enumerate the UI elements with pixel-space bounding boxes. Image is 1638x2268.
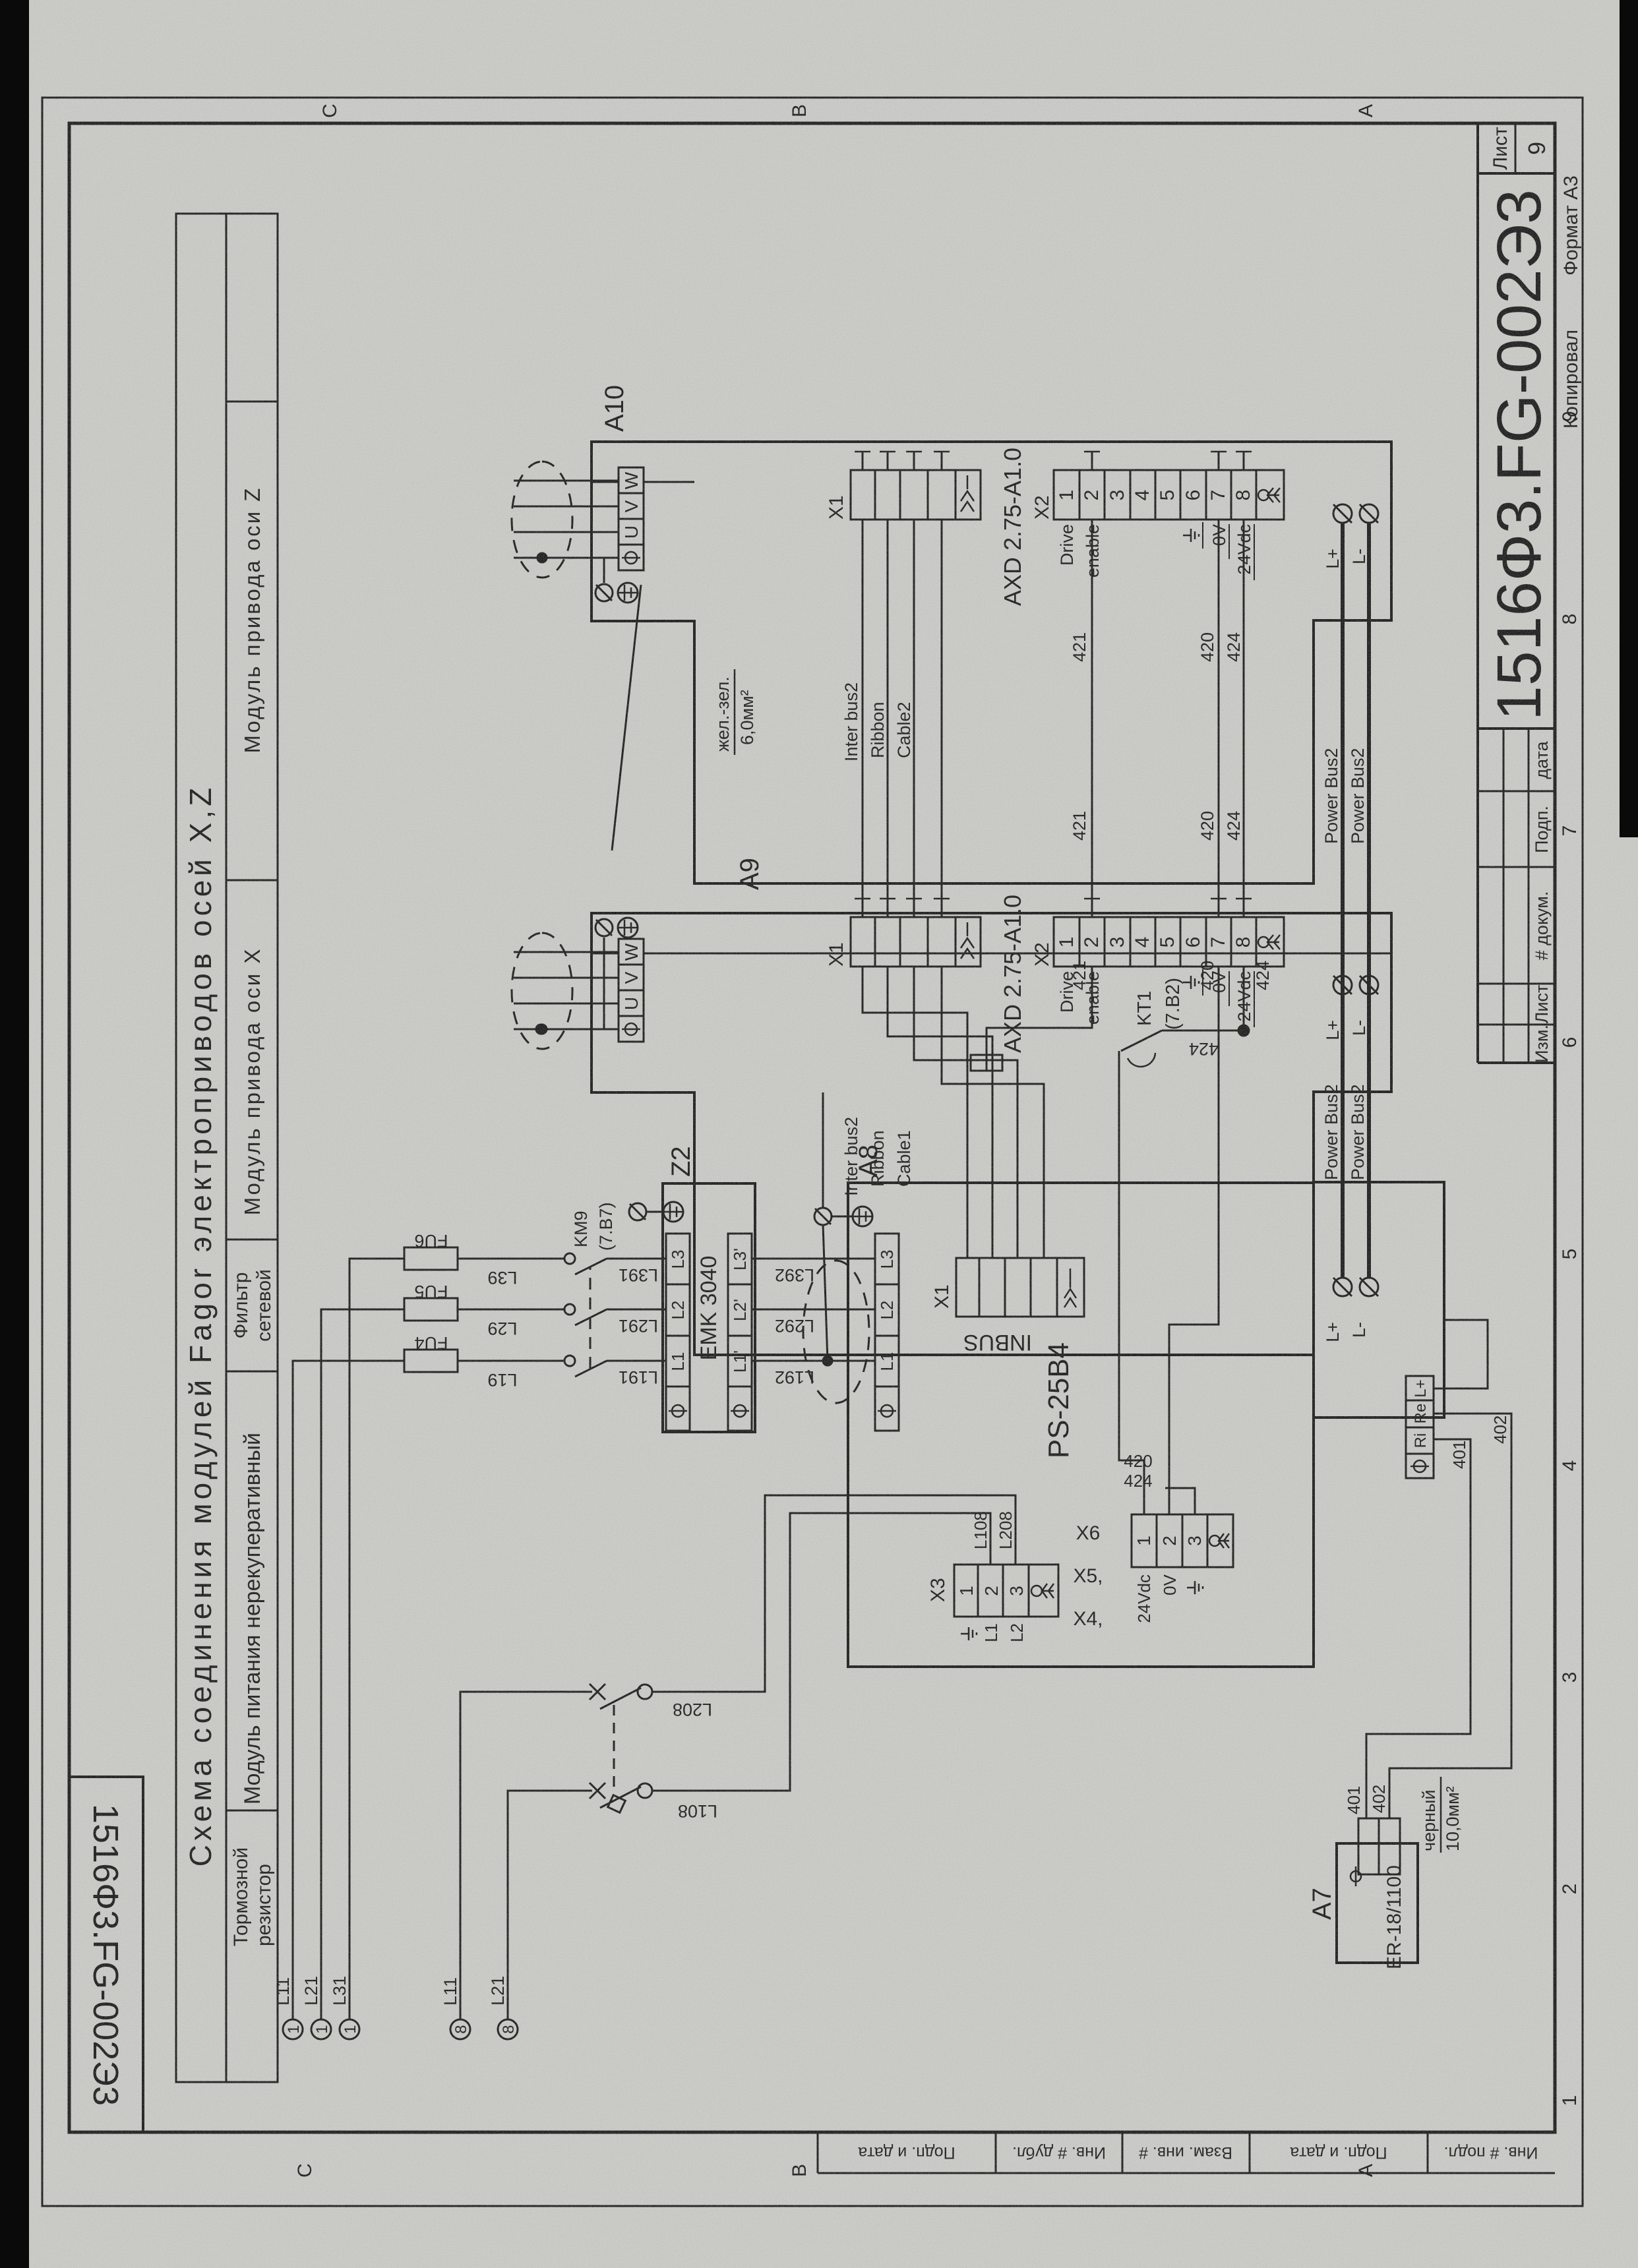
wire 421 A10 to A9 [971, 520, 1249, 1514]
A8 earth circle [853, 1207, 872, 1226]
A10 shield drain wire [541, 558, 604, 583]
wire L31 phase L3 [349, 1259, 404, 2019]
module A7 box [1337, 1843, 1418, 1963]
X3 row labels [961, 1623, 1027, 1642]
header band outline [176, 214, 278, 2082]
Z2 input strip [666, 1234, 690, 1431]
A10 earth circle [618, 583, 638, 603]
wire 424 KT1 to X4 [1119, 1051, 1144, 1514]
A10 X2 shield cell symbol [1258, 490, 1269, 500]
A10 X1 connector [851, 470, 981, 520]
QF08 release box on lever [608, 1795, 626, 1813]
A9 motor cable shield oval [512, 933, 572, 1049]
A9 pin6 earth symbol [1183, 969, 1254, 1027]
A8 X2 small connector [971, 1055, 1002, 1071]
KM9 mechanical dashed link [590, 1267, 591, 1369]
ribbon cable wires A9.X1 to A8.X1 with jogs [863, 967, 1044, 1258]
A10 shield dot [537, 553, 547, 562]
A9 UVW letters [621, 943, 642, 1010]
X4 pin numbers [1134, 1536, 1205, 1546]
A10 internal divider [591, 481, 694, 483]
A9 X2 pin numbers [1056, 937, 1254, 948]
Z2 filter box [629, 1183, 755, 1432]
A8 X1 arrow symbol [1064, 1268, 1076, 1307]
wire L21 phase L2 [321, 1309, 404, 2019]
wire L208 QF08 down [652, 1513, 990, 1791]
title block column lines [1478, 1024, 1555, 1026]
ribbon cable wires A10.X1 to A9.X1 [863, 520, 942, 917]
module A8 box [848, 1182, 1444, 1667]
QF08 pole 1 lever [600, 1688, 641, 1709]
module A9 outline [591, 913, 1391, 1355]
wire L11 phase L1 [293, 1361, 404, 2019]
wire L39 fuse to KM9 [458, 1258, 564, 1260]
band cell divider 2 [226, 1371, 278, 1373]
X4 shield cell symbol [1209, 1536, 1220, 1546]
A10 motor wires [514, 481, 619, 558]
KM9 contact pole L2 [564, 1304, 575, 1315]
band cell divider 3 [226, 1239, 278, 1241]
A9 pin labels Drive enable [1057, 971, 1254, 1025]
terminal L11 circled 1 [283, 2019, 303, 2039]
Z2 output strip [728, 1234, 752, 1431]
A8 earth screw [814, 1208, 832, 1225]
wire L391 KM9 to Z2 [607, 1258, 666, 1260]
band cell divider 4 [226, 880, 278, 881]
module A10 outline [591, 442, 1391, 883]
X4 row3 earth glyph [1187, 1581, 1203, 1594]
A9 shield drain wire [541, 938, 604, 1029]
A8 X3 connector [954, 1565, 1058, 1617]
wire L11 to QF08 [460, 1692, 592, 2019]
A9 earth circle [618, 918, 638, 938]
shield dot [823, 1356, 832, 1365]
L+ L- terminals A8 [1333, 1278, 1352, 1296]
wire 420 A9 to X5 [1169, 967, 1219, 1514]
A8 X1 INBUS connector [956, 1258, 1084, 1317]
Z2 earth screw [629, 1203, 646, 1220]
QF08 pole 2 lever [600, 1787, 641, 1808]
X3 earth glyph [961, 1627, 977, 1640]
A10 X2 pin stubs [1092, 452, 1244, 470]
wire 424 junction up to KT1 [1162, 1030, 1244, 1032]
wire L+ cell [1434, 1320, 1488, 1388]
wire L19 fuse to KM9 [458, 1360, 564, 1362]
QF08 pole 1 terminal x [590, 1684, 605, 1700]
QF08 pole 2 terminal x [590, 1783, 605, 1799]
KM9 contact pole L1 [564, 1356, 575, 1366]
wire L191 KM9 to Z2 [607, 1360, 666, 1362]
X4 row labels [1134, 1574, 1180, 1623]
A9 X2 connector [1054, 917, 1284, 967]
wire 420 A10 to A9 [1218, 520, 1220, 917]
wire L21 to QF08 [508, 1791, 592, 2019]
A9 UVW screw symbol [625, 1023, 637, 1035]
A10 earth screw [536, 558, 641, 1034]
Z2 earth circle [663, 1202, 683, 1222]
графа 26 doc number box top-left [69, 1777, 143, 2132]
A10 motor cable shield oval [512, 462, 572, 578]
terminal L21 circled 8 [498, 2019, 518, 2039]
X3 shield cell symbol [1031, 1586, 1042, 1596]
A7 screw symbol [1350, 1871, 1361, 1882]
KT1 timer arc [1128, 1053, 1155, 1067]
A9 earth screw [595, 919, 613, 936]
KM9 contact pole L3 [564, 1253, 575, 1264]
KT1 contact lever [1121, 1030, 1162, 1051]
wire L108 QF08 down [652, 1495, 1016, 1692]
cable shield oval Z2-A8 [803, 1261, 869, 1403]
band cell divider 5 [226, 401, 278, 403]
A9 X1 stubs [863, 899, 942, 917]
A9 internal divider [591, 953, 1391, 955]
wire 424 A9 to KT1 junction [1243, 967, 1245, 1030]
A10 UVW letters [621, 471, 642, 539]
earth wire dot to A8 screw [823, 1224, 828, 1361]
A10 UVW screw symbol [625, 552, 637, 564]
wire L291 KM9 to Z2 [607, 1309, 666, 1311]
A10 X2 pin numbers [1056, 490, 1254, 501]
scanner black strip right edge top (portrait) [1620, 0, 1638, 837]
A8 X4 X5 X6 connector [1132, 1514, 1233, 1567]
wire 401 A7 to Ri [1366, 1320, 1511, 1818]
A9 UVW terminal strip [619, 939, 644, 1042]
A9 X1 arrow symbol [961, 922, 974, 959]
wire 424 A10 to A9 [1243, 520, 1245, 917]
Лист cell divider [1515, 123, 1517, 173]
terminal L11 circled 8 [450, 2019, 470, 2039]
wires L192 L292 L392 Z2 to A8 [752, 1092, 875, 1403]
L+ L- terminals A10 [1333, 504, 1378, 1296]
A9 X2 shield cell symbol [1258, 937, 1269, 947]
QF08 mechanical dashed link [613, 1701, 615, 1787]
A8 power compartment [1314, 1182, 1444, 1417]
fuse FU5 [404, 1298, 458, 1321]
A10 pin labels Drive enable [1057, 524, 1254, 578]
A10 X2 connector [1054, 470, 1284, 520]
title block outline (форма 2а) [1476, 123, 1479, 1063]
A10 X1 arrow symbol [961, 475, 974, 512]
yellow-green earth jumper diagonal [612, 585, 641, 850]
A9 shield dot [537, 1025, 547, 1034]
Power Bus wire L- [1367, 523, 1371, 1278]
fuse FU6 [404, 1247, 458, 1270]
wire 421 A9 to A8 stub [986, 967, 1092, 1055]
A10 UVW terminal strip [619, 467, 644, 570]
wire L29 fuse to KM9 [458, 1309, 564, 1311]
X3 pin numbers [956, 1586, 1027, 1596]
fuse FU4 [404, 1350, 458, 1372]
A9 X1 connector [851, 917, 981, 967]
margin stamp boxes left edge [817, 2132, 819, 2173]
L+ L- terminals A9 [1333, 976, 1352, 994]
Power Bus wire L+ [1341, 523, 1345, 1278]
A9 motor wires [514, 952, 619, 1029]
A10 X1 stubs [863, 452, 942, 470]
scanner black strip left edge (portrait) [0, 0, 29, 2268]
wire 402 A7 to Re [1389, 1414, 1511, 1818]
A7 terminal connector 2 cells [1350, 1818, 1400, 1886]
A8 input strip L1 L2 L3 [875, 1234, 899, 1431]
R terminal strip [1406, 1376, 1434, 1478]
terminal L21 circled 1 [311, 2019, 331, 2039]
title block row lines [1503, 729, 1505, 1063]
A9 X2 pin stubs [1092, 899, 1244, 917]
Z2 strip screw symbols [669, 1405, 749, 1417]
X5 pin3 stub [1165, 1488, 1195, 1514]
terminal L31 circled 1 [340, 2019, 359, 2039]
A10 pin6 earth symbol [1183, 522, 1254, 580]
header band row divider [226, 214, 228, 2082]
band cell divider 1 [226, 1810, 278, 1812]
A9 shield dot wire vertical [536, 1025, 545, 1034]
